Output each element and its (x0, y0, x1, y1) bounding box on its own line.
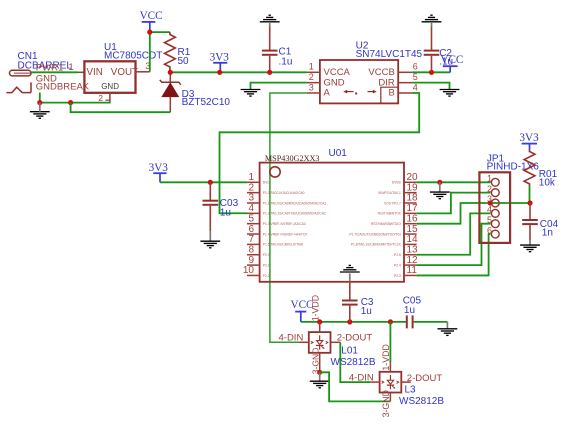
ground CN1 (30, 112, 50, 119)
supply symbol 3V3 right (519, 132, 539, 150)
svg-text:L3: L3 (405, 385, 417, 396)
pin stub L01 GND (319, 353, 321, 373)
pin stub U01 pin 20 (404, 181, 417, 183)
pin stub U01 pin 9 (247, 264, 260, 266)
wire CN1 GND down (39, 93, 41, 103)
pin stub U01 pin 18 (404, 202, 417, 204)
stem ground C1 (269, 23, 271, 27)
wire U2 DIR to ground (412, 83, 449, 90)
microcontroller U01 box (260, 163, 404, 282)
svg-text:VIN: VIN (87, 67, 103, 78)
svg-text:2: 2 (309, 72, 314, 82)
svg-text:19: 19 (407, 182, 419, 193)
svg-text:U01: U01 (329, 148, 348, 159)
CN1 GNDBREAK break symbol (6, 87, 31, 92)
JP1 pin 5 circle (491, 220, 499, 228)
capacitor C05 (407, 315, 448, 328)
svg-text:7: 7 (248, 234, 254, 245)
pin stub U1 VIN (78, 71, 84, 73)
junction L3 VDD tap (388, 319, 393, 324)
supply symbol VCC bottom (291, 299, 314, 322)
svg-text:A: A (324, 88, 331, 99)
ground bars U01 DVSS (340, 265, 360, 272)
svg-text:VCC: VCC (440, 54, 463, 66)
svg-text:MSP430G2XX3: MSP430G2XX3 (265, 154, 320, 163)
pin stub L01 VDD (319, 322, 321, 332)
capacitor C3 (342, 282, 358, 322)
pin stub L3 VDD (389, 362, 391, 372)
junction 3V3 stub (217, 70, 222, 75)
ground U2 GND (241, 90, 261, 97)
pin header JP1 box (479, 172, 510, 243)
JP1 pin 1 circle (491, 178, 499, 186)
svg-text:P2.3: P2.3 (394, 274, 401, 278)
junction L01 GND (317, 370, 322, 375)
capacitor C2 (424, 27, 440, 73)
pin stub U2 pin 4 (398, 92, 412, 94)
svg-text:6: 6 (248, 224, 254, 235)
svg-text:4: 4 (487, 205, 492, 215)
svg-text:XIN/P2.6/TA0.1: XIN/P2.6/TA0.1 (378, 191, 401, 195)
svg-text:3V3: 3V3 (210, 51, 230, 63)
U01 pin-1 circle (270, 167, 280, 177)
svg-text:1u: 1u (361, 306, 372, 317)
svg-text:P1.7/CAOUT/UCB0SOMI/TDO/TDI: P1.7/CAOUT/UCB0SOMI/TDO/TDI (349, 232, 401, 236)
JP1 pin 2 circle (491, 189, 499, 197)
junction C03 tap (208, 180, 213, 185)
pin stub U01 pin 8 (247, 254, 260, 256)
svg-text:P1.3/VREF-/VEREF-/A3/CA3: P1.3/VREF-/VEREF-/A3/CA3 (263, 222, 306, 226)
pin stub U01 pin 4 (247, 212, 260, 214)
capacitor C1 (262, 27, 278, 73)
LED L01 symbol (311, 335, 328, 349)
U2 B driver notch (381, 87, 398, 103)
wire JP1 pin3 to U01 pin16 (RST) (417, 203, 491, 224)
JP1 pin 6 circle (491, 230, 499, 238)
ground above C2 (422, 15, 442, 22)
svg-text:2-DOUT: 2-DOUT (337, 333, 373, 344)
supply symbol VCC top-right (440, 54, 463, 72)
pin stub U1 GND (109, 93, 111, 103)
pin stub U2 pin 6 (398, 71, 412, 73)
svg-text:P2.1: P2.1 (263, 263, 270, 267)
pin stub U01 pin 10 (247, 274, 260, 276)
svg-text:6: 6 (487, 225, 492, 235)
wire VCC to VOUT (149, 31, 151, 72)
pin stub U01 pin 11 (404, 274, 417, 276)
svg-text:.1u: .1u (279, 56, 293, 67)
svg-text:5: 5 (248, 213, 254, 224)
wire U2 B to MCU P1.2 (net over top of MCU) (220, 93, 420, 213)
pin stub L3 GND (389, 393, 391, 402)
svg-text:MC7805CDT: MC7805CDT (104, 51, 162, 62)
junction L01 VDD (317, 319, 322, 324)
svg-text:3: 3 (248, 193, 254, 204)
wire JP1 pin2 to U01 pin17 (TEST) (417, 193, 491, 214)
svg-text:P1.0/TA0CLK/ACLK/A0/CA0: P1.0/TA0CLK/ACLK/A0/CA0 (263, 191, 305, 195)
svg-text:P1.4/VREF+/VEREF+/A4/TCK: P1.4/VREF+/VEREF+/A4/TCK (263, 232, 309, 236)
junction JP1 pin3 (488, 200, 493, 205)
ground U01 pin20 (430, 192, 450, 199)
wire JP1 pin5 to U01 pin12 (417, 224, 491, 265)
svg-text:20: 20 (407, 172, 419, 183)
pin stub U01 pin 2 (247, 192, 260, 194)
svg-text:8: 8 (248, 244, 254, 255)
svg-text:1u: 1u (404, 305, 415, 316)
svg-text:VCC: VCC (140, 10, 163, 22)
wire VCC to R1 top (150, 31, 170, 33)
pin stub U01 pin 19 (404, 192, 417, 194)
stem ground L01 (319, 372, 321, 381)
svg-text:14: 14 (407, 234, 419, 245)
junction C1 on 3V3 rail (267, 70, 272, 75)
pin stub U01 pin 16 (404, 223, 417, 225)
svg-text:RST/NMI/SBWTDIO: RST/NMI/SBWTDIO (371, 222, 401, 226)
pin stub U01 pin 6 (247, 233, 260, 235)
stem ground C05 (446, 322, 448, 329)
svg-text:6: 6 (413, 62, 418, 72)
svg-text:1-VDD: 1-VDD (310, 295, 320, 321)
capacitor C03 (203, 182, 219, 231)
svg-text:DVcc: DVcc (263, 181, 271, 185)
U2 direction arrow left (343, 90, 357, 95)
wire U01 pin20 to JP1 pin1 (417, 181, 491, 183)
stem ground C2 (431, 23, 433, 27)
svg-text:10: 10 (243, 265, 255, 276)
junction R1/D3/3V3 rail (168, 70, 173, 75)
wire 3V3 rail from R1/D3 to U2 VCCA (170, 71, 307, 73)
svg-text:GND: GND (101, 82, 119, 91)
wire GND rail jog down (71, 103, 171, 113)
svg-text:XOUT/P2.7: XOUT/P2.7 (384, 201, 401, 205)
svg-text:3: 3 (309, 82, 314, 92)
svg-text:BZT52C10: BZT52C10 (182, 97, 231, 108)
wire L01 GND to L3 GND (320, 372, 391, 401)
LED L01 box (309, 332, 331, 353)
JP1 pin 3 circle (491, 199, 499, 207)
pin stub U01 pin 14 (404, 243, 417, 245)
svg-text:2: 2 (248, 182, 254, 193)
svg-text:12: 12 (407, 255, 419, 266)
svg-text:SN74LVC1T45: SN74LVC1T45 (356, 49, 423, 60)
svg-text:3-GND: 3-GND (381, 390, 391, 417)
svg-text:17: 17 (407, 203, 419, 214)
svg-text:L01: L01 (341, 346, 358, 357)
ground U2 DIR (440, 90, 460, 97)
svg-text:1: 1 (248, 172, 254, 183)
pin stub L01 DOUT (331, 341, 341, 343)
svg-text:1n: 1n (542, 228, 553, 239)
stem ground CN1 (39, 103, 41, 112)
svg-text:2: 2 (487, 184, 492, 194)
wire JP1 pin3 to R01/C04 node (491, 202, 531, 204)
U2 direction arrow right (368, 90, 377, 94)
junction C2 node (429, 70, 434, 75)
wire U2 GND to ground (251, 83, 307, 90)
svg-text:P1.2/TA0.1/UCA0TXD/UCA0SIMO/A2: P1.2/TA0.1/UCA0TXD/UCA0SIMO/A2/CA2 (263, 212, 326, 216)
wire U2 A down to LED DIN (long vertical) (270, 93, 307, 342)
wire L01 DOUT to L3 DIN (340, 342, 370, 382)
svg-text:1: 1 (309, 62, 314, 72)
voltage regulator U1 box (84, 61, 135, 93)
svg-text:P2.5: P2.5 (394, 253, 401, 257)
ground C03 (200, 241, 220, 248)
svg-text:GNDBREAK: GNDBREAK (36, 81, 90, 92)
pin stub L3 DOUT (401, 381, 411, 383)
svg-text:1: 1 (487, 174, 492, 184)
pin stub U01 pin 3 (247, 202, 260, 204)
pin stub U01 pin 7 (247, 243, 260, 245)
wire U2 VCCB to VCC (412, 71, 450, 73)
svg-text:9: 9 (248, 255, 254, 266)
svg-text:5: 5 (413, 72, 418, 82)
ground above C1 (260, 15, 280, 22)
svg-text:2-DOUT: 2-DOUT (407, 373, 443, 384)
svg-text:WS2812B: WS2812B (399, 396, 444, 407)
wire 3V3 to MCU DVCC pin 1 (160, 181, 247, 183)
supply symbol 3V3 top (210, 51, 230, 72)
pin stub U01 pin 15 (404, 233, 417, 235)
svg-text:P1.1/TA0.0/UCA0RXD/UCA0SOMI/A1: P1.1/TA0.0/UCA0RXD/UCA0SOMI/A1/CA1 (263, 201, 327, 205)
pin stub U01 pin 1 (247, 181, 260, 183)
pin stub U2 pin 2 (307, 82, 320, 84)
svg-text:VOUT: VOUT (111, 67, 138, 78)
LED L3 box (380, 372, 402, 393)
ground C05 (438, 329, 458, 336)
svg-text:15: 15 (407, 224, 419, 235)
CN1 GND pin (30, 82, 32, 92)
pin stub U1 VOUT (136, 71, 150, 73)
svg-text:TEST/SBWTCK: TEST/SBWTCK (377, 212, 401, 216)
svg-text:4: 4 (413, 82, 418, 92)
wire JP1 pin6 to U01 pin11 (417, 234, 491, 275)
pin stub U2 pin 3 (307, 92, 320, 94)
pin stub U2 pin 1 (307, 71, 320, 73)
JP1 pin 4 circle (491, 209, 499, 217)
svg-text:13: 13 (407, 244, 419, 255)
svg-text:WS2812B: WS2812B (331, 357, 376, 368)
svg-text:1u: 1u (220, 207, 231, 218)
svg-text:3: 3 (487, 194, 492, 204)
wire JP1 pin4 to U01 pin13 (417, 213, 491, 254)
ground inside U01 (DVSS) (349, 273, 351, 281)
resistor R1 (165, 32, 176, 72)
pin stub L01 DIN (300, 341, 309, 343)
svg-text:B: B (388, 88, 394, 99)
svg-text:P2.4: P2.4 (394, 263, 401, 267)
pin stub U01 pin 17 (404, 212, 417, 214)
capacitor C04 (522, 203, 538, 240)
pin stub L3 DIN (370, 381, 380, 383)
LED L3 symbol (382, 375, 399, 389)
supply symbol VCC top-left (140, 10, 163, 30)
svg-text:50: 50 (178, 56, 190, 67)
svg-text:4: 4 (248, 203, 254, 214)
svg-text:3V3: 3V3 (149, 162, 169, 174)
stem ground C03 (209, 231, 211, 241)
svg-text:P1.5/TA0.0/UCB0CLK/TMS: P1.5/TA0.0/UCB0CLK/TMS (263, 243, 304, 247)
wire L3 VDD from rail (389, 322, 391, 362)
level shifter U2 box (320, 60, 398, 103)
resistor R01 (524, 150, 535, 187)
wire VDD rail (301, 321, 407, 323)
svg-text:10k: 10k (539, 178, 556, 189)
svg-text:DVSS: DVSS (392, 181, 402, 185)
junction C3 tap (347, 319, 352, 324)
pin stub U01 pin 5 (247, 223, 260, 225)
svg-text:P2.0: P2.0 (263, 253, 270, 257)
ground L01 (310, 381, 330, 388)
zener diode D3 (160, 72, 181, 112)
svg-text:4-DIN: 4-DIN (349, 372, 374, 383)
junction CN1 GND (37, 100, 42, 105)
connector CN1 DCBARREL symbol (10, 70, 32, 76)
svg-text:11: 11 (407, 265, 418, 276)
svg-text:P2.2: P2.2 (263, 274, 270, 278)
pin stub U2 pin 5 (398, 82, 412, 84)
svg-text:5: 5 (487, 215, 492, 225)
svg-text:P1.6/TA0.1/UCB0SOMI/TDI/TCLK: P1.6/TA0.1/UCB0SOMI/TDI/TCLK (351, 243, 402, 247)
wire GND rail to U1 GND (40, 102, 111, 104)
junction RST node (527, 200, 532, 205)
svg-text:1-VDD: 1-VDD (381, 344, 391, 370)
pin stub U01 pin 12 (404, 264, 417, 266)
wire R01 to RST node (529, 186, 531, 203)
ground C04 (520, 245, 540, 252)
wire CN1 PWR to U1 VIN (31, 71, 78, 73)
pin stub U01 pin 13 (404, 254, 417, 256)
supply symbol 3V3 mid-left (149, 162, 169, 182)
stem ground C04 (529, 240, 531, 245)
svg-text:16: 16 (407, 213, 419, 224)
svg-text:18: 18 (407, 193, 419, 204)
junction GND rail (68, 100, 73, 105)
svg-text:4-DIN: 4-DIN (279, 332, 304, 343)
junction VCC node (147, 29, 152, 34)
junction pin20 ground tap (437, 180, 442, 185)
stem ground pin20 (439, 182, 441, 192)
svg-text:3V3: 3V3 (519, 132, 539, 144)
